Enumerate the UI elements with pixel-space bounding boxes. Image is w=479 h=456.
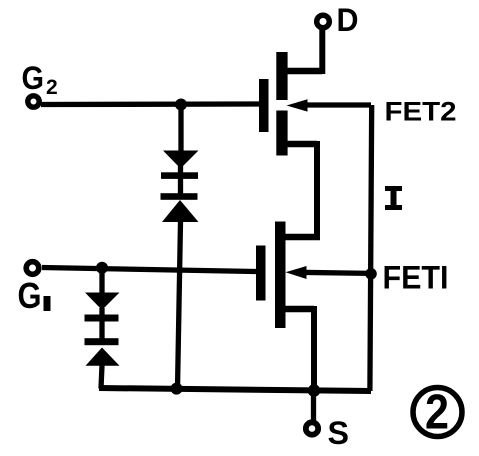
terminal G1 (26, 262, 39, 275)
svg-text:G: G (18, 275, 42, 316)
terminal D (317, 15, 330, 28)
wire FET1 substrate arrow line (298, 272, 370, 273)
label G2 (22, 60, 58, 99)
wire junction down to diode pair CR3 (178, 105, 183, 152)
junction node diode chain/source rail (171, 383, 183, 395)
diode CR2 (anode down) (85, 338, 120, 366)
wire gate1 from G1 terminal to FET1 gate (42, 268, 256, 272)
terminal S (306, 422, 318, 434)
wire FET1 source down to source rail (311, 306, 317, 391)
diode CR1 (anode up) (85, 293, 120, 322)
svg-text:G: G (22, 60, 45, 96)
wire diode chain CR2 down to source rail (101, 366, 102, 389)
transistor FET1 (256, 222, 320, 329)
svg-text:2: 2 (425, 386, 449, 440)
junction node S stub/source rail (308, 384, 321, 397)
junction node gate1/diode chain (96, 262, 108, 274)
wire FET2 substrate arrow line (300, 102, 371, 107)
wire FET2 drain up to D terminal (319, 28, 325, 74)
wire source rail to S terminal (311, 390, 316, 422)
label G1 (18, 275, 51, 316)
svg-text:FET2: FET2 (385, 97, 457, 127)
figure number 2 circled (413, 386, 462, 440)
wire between CR3 and CR4 (178, 178, 183, 194)
svg-text:S: S (328, 415, 350, 451)
wire between CR1 and CR2 (99, 320, 104, 339)
svg-text:D: D (337, 2, 359, 38)
wire source rail (bottom) (99, 388, 371, 391)
wire diode chain CR4 down to source rail (178, 222, 181, 389)
wire gate2 from G2 terminal to FET2 gate (41, 101, 260, 107)
wire right vertical I (FET2 substrate to source rail) (370, 105, 372, 391)
wire junction down to diode CR1 (99, 268, 104, 293)
label I (385, 186, 402, 210)
terminal G2 (28, 96, 39, 107)
svg-text:2: 2 (46, 76, 58, 99)
junction node gate2/diode chain (175, 99, 187, 111)
transistor FET2 (259, 52, 322, 156)
wire FET2 source to FET1 drain (286, 141, 317, 237)
diode CR3 (anode up) (161, 151, 199, 179)
junction node FET1 substrate / right vertical (365, 268, 377, 280)
svg-text:FETI: FETI (383, 260, 449, 296)
diode CR4 (anode down) (161, 193, 199, 222)
